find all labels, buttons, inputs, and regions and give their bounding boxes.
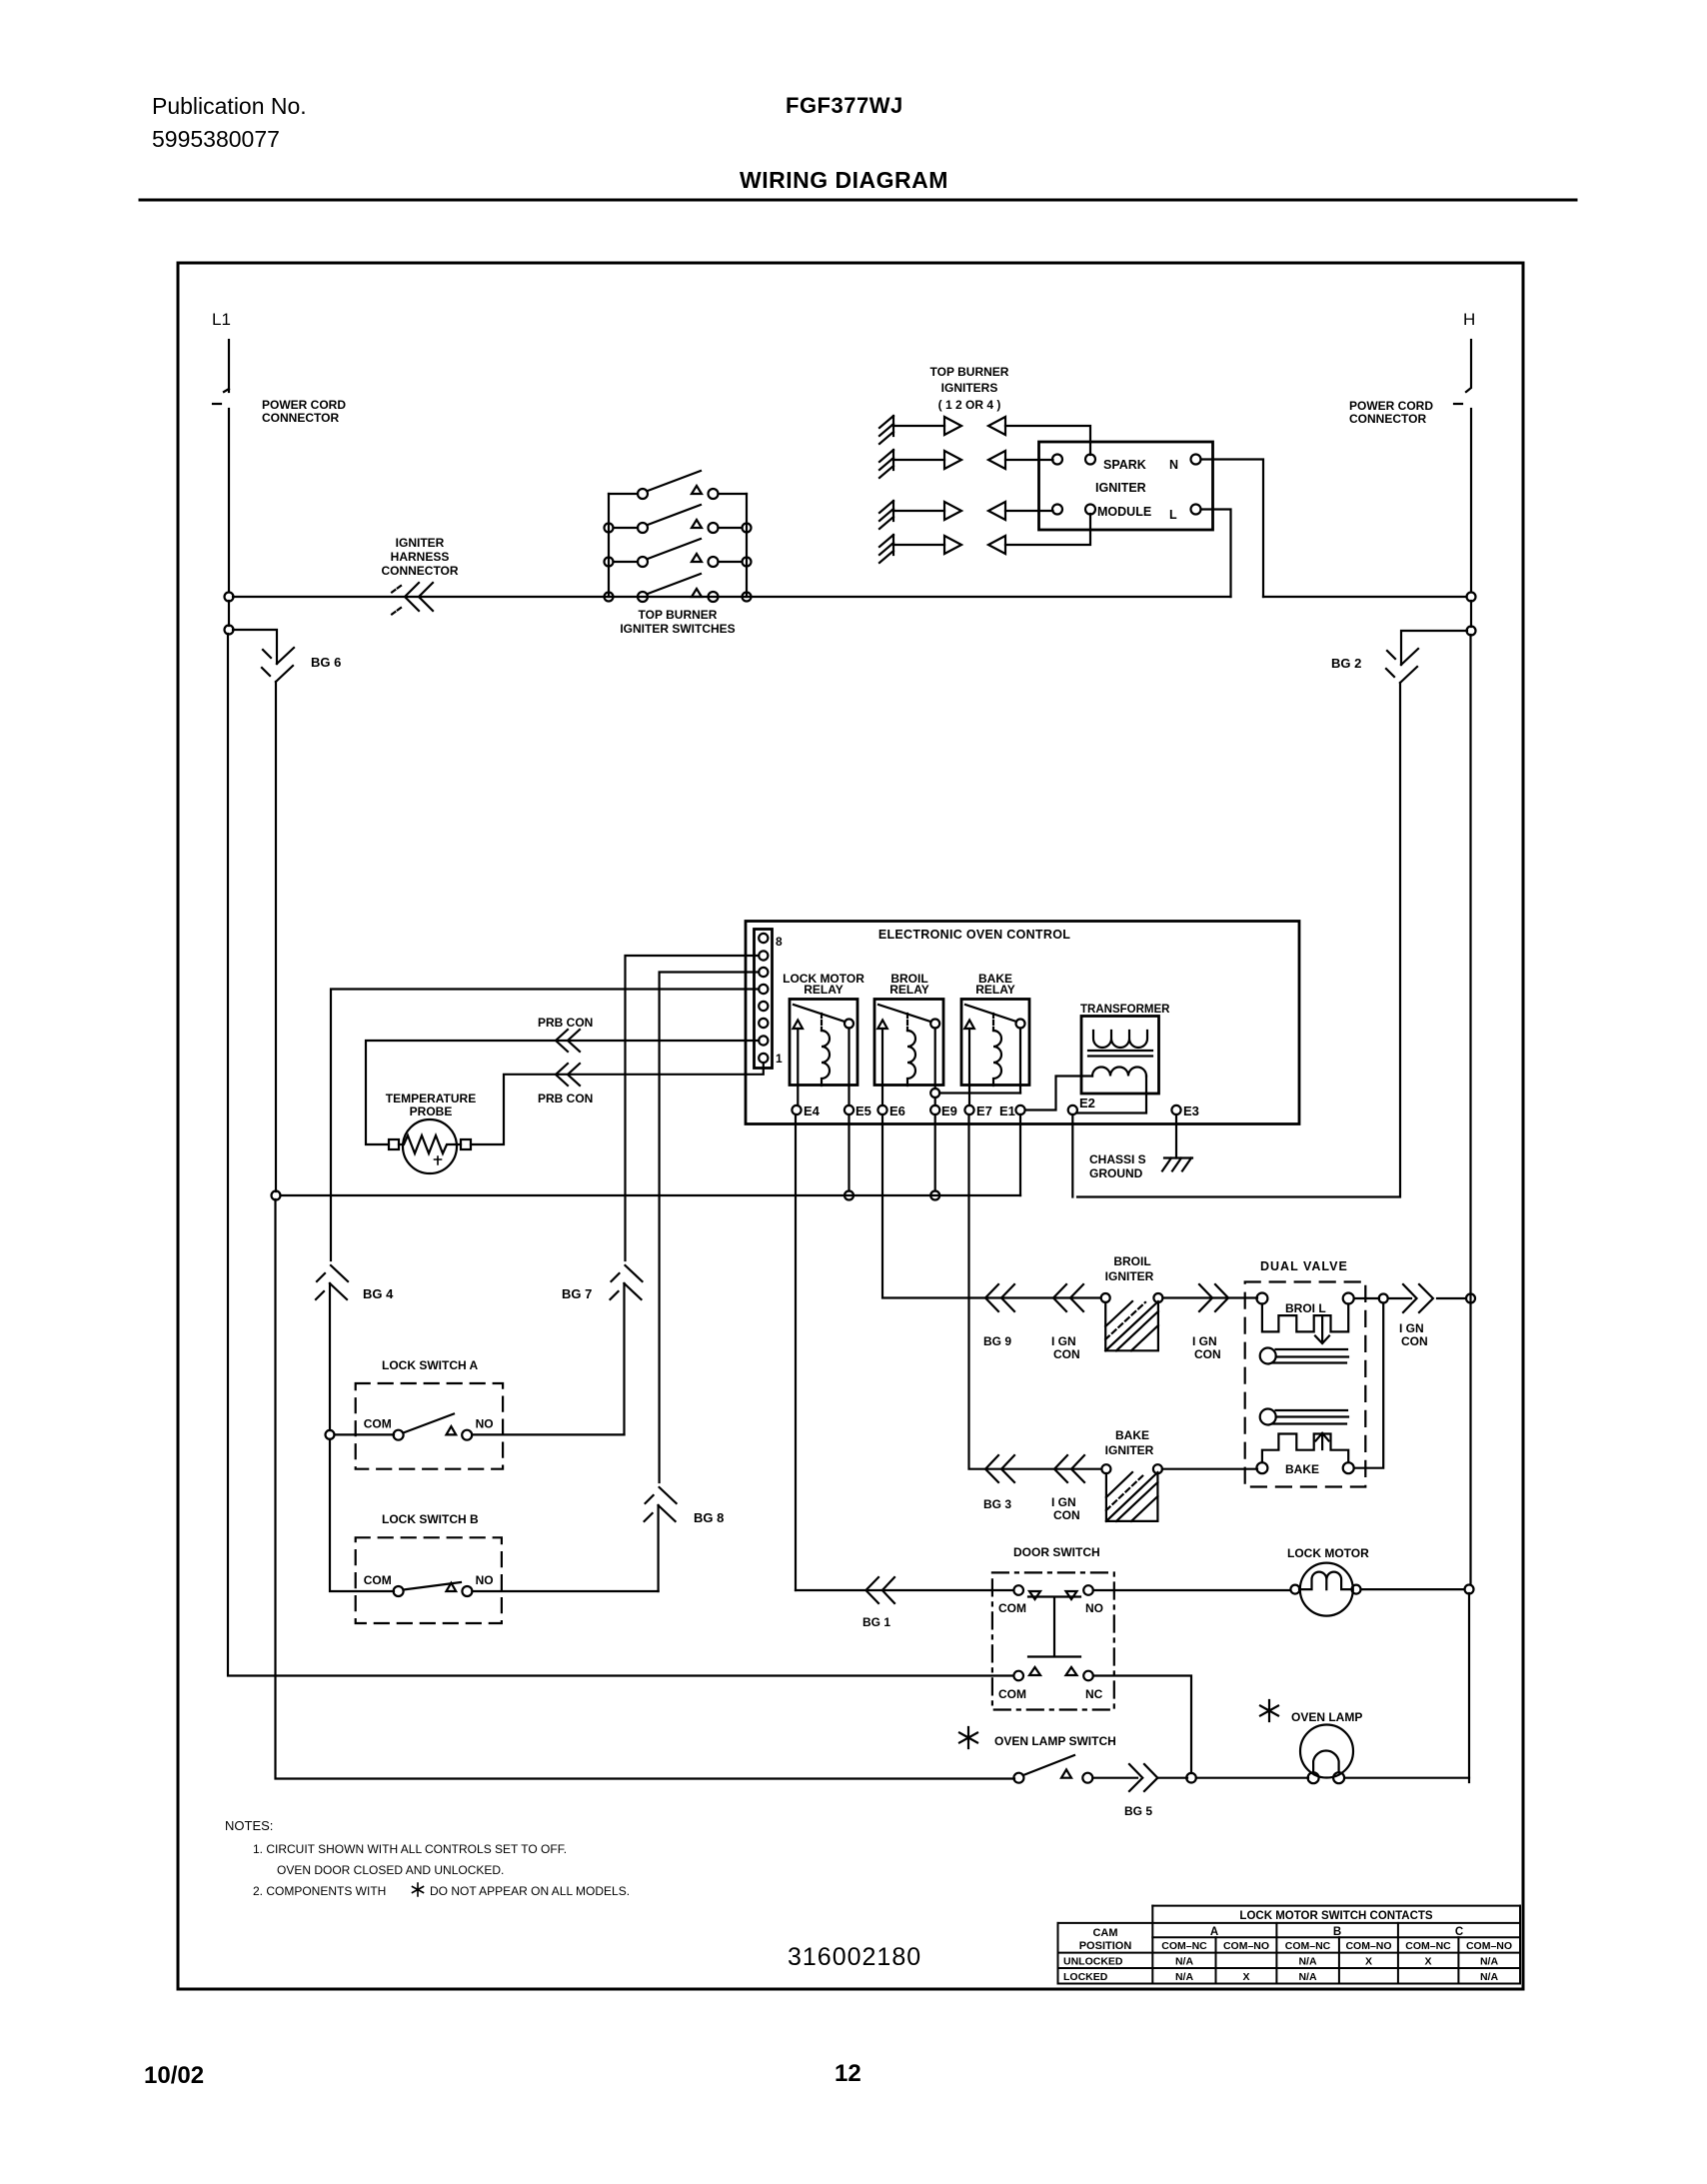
wire: E1 drop to bus end — [1019, 1114, 1021, 1195]
svg-text:8: 8 — [776, 935, 783, 949]
svg-text:CONNECTOR: CONNECTOR — [262, 411, 339, 425]
node: L1 bus junction — [225, 593, 234, 602]
lock motor winding m — [1299, 1572, 1352, 1590]
svg-text:TOP BURNER: TOP BURNER — [930, 365, 1009, 379]
lock motor body circle — [1300, 1563, 1353, 1616]
svg-text:POWER CORD: POWER CORD — [262, 398, 346, 412]
bake relay contact circle — [1016, 1020, 1025, 1029]
node: switch row3 right — [743, 558, 752, 567]
connector IGN CON right-rail chevrons — [1403, 1284, 1433, 1312]
terminal E4 — [792, 1105, 801, 1114]
igniter gap arrow right row 4 — [944, 536, 961, 554]
node: H bus junction — [1467, 593, 1476, 602]
wire: BG6 rail lower — [276, 1199, 1015, 1779]
switch row 3 blade — [648, 539, 701, 559]
switch row 4 contact circle — [709, 592, 719, 602]
terminal E5 — [845, 1105, 853, 1114]
broil relay armature wire to E6 — [881, 1029, 883, 1105]
bake relay box — [961, 1000, 1029, 1086]
svg-text:LOCK SWITCH B: LOCK SWITCH B — [382, 1512, 479, 1526]
module pin circle bottom-left a — [1052, 505, 1062, 515]
wire: bus segment right (N drop to H node) — [1263, 596, 1467, 598]
temperature probe body circle — [403, 1119, 457, 1173]
connector IGN CON bake chevrons — [1054, 1455, 1084, 1482]
svg-text:COM–NO: COM–NO — [1466, 1940, 1512, 1952]
bake relay armature wire to E7 — [968, 1029, 970, 1105]
node: E9/bake contact junction — [930, 1089, 939, 1097]
svg-text:BG 3: BG 3 — [983, 1497, 1011, 1511]
wire: pin1 to temperature probe right (lower PRB CON run) — [471, 1063, 764, 1144]
wire: E4 drop to door switch line — [795, 1114, 797, 1590]
door switch top left contact triangle — [1029, 1591, 1040, 1599]
wire: E6 drop then broil igniter line — [882, 1114, 1100, 1298]
svg-text:OVEN DOOR CLOSED AND UNLOC: OVEN DOOR CLOSED AND UNLOCKED. — [277, 1863, 504, 1877]
bake burner tube lines — [1272, 1410, 1348, 1424]
wire: node to right-rail chevron — [1388, 1297, 1466, 1299]
temperature probe t mark — [435, 1156, 442, 1164]
wire: L to left bus — [1201, 510, 1231, 598]
lock motor relay blade — [794, 1005, 845, 1022]
switch row 4 blade — [648, 574, 701, 594]
igniter gap arrow left row 1 — [988, 417, 1005, 435]
switch row 4 pole circle — [638, 592, 648, 602]
svg-text:DUAL VALVE: DUAL VALVE — [1260, 1259, 1348, 1273]
svg-text:C: C — [1455, 1926, 1463, 1938]
igniter gap arrow right row 1 — [944, 417, 961, 435]
node: bus junction on BG6 rail — [272, 1191, 281, 1200]
wire row4 to module — [1005, 514, 1090, 545]
switch row 3 contact wire — [719, 561, 743, 563]
svg-text:I GN: I GN — [1051, 1334, 1076, 1348]
broil relay blade — [878, 1005, 930, 1022]
strip pin 7 — [759, 951, 768, 960]
wire: H rail between junctions — [1470, 601, 1472, 627]
connector PRB CON lower chevrons — [556, 1064, 580, 1086]
strip pin 1 — [759, 1054, 768, 1063]
module pin circle L — [1191, 505, 1201, 515]
svg-text:LOCK MOTOR: LOCK MOTOR — [1287, 1546, 1369, 1560]
wire: lock switch B no to BG8 drop — [472, 1590, 658, 1592]
svg-text:IGNITER: IGNITER — [1105, 1269, 1154, 1283]
svg-text:N/A: N/A — [1175, 1971, 1194, 1983]
lock switch A no circle — [462, 1430, 472, 1440]
lock switch B dashed box — [356, 1537, 502, 1623]
lock switch B no circle — [462, 1586, 472, 1596]
wire: L1 lead lower to bus — [228, 409, 230, 592]
svg-text:BG 7: BG 7 — [562, 1286, 592, 1301]
door switch bottom nc circle — [1083, 1671, 1093, 1681]
svg-text:PROBE: PROBE — [410, 1104, 453, 1118]
wire: main bus from L1 to spark module L drop — [233, 596, 1231, 598]
door switch top com circle — [1013, 1585, 1023, 1595]
switch row 1 contact triangle — [692, 486, 702, 494]
connector BG 8 chevrons — [645, 1487, 677, 1521]
wire: pin3 to BG8 — [660, 973, 760, 1483]
svg-text:E3: E3 — [1183, 1103, 1199, 1118]
wire: door no to lock motor — [1093, 1589, 1290, 1591]
oven lamp switch blade — [1023, 1755, 1074, 1775]
terminal E9 — [930, 1105, 939, 1114]
lock motor relay contact wire to E5 — [848, 1029, 850, 1106]
dual valve bake-left terminal — [1256, 1462, 1267, 1473]
wire: pin4 to lock switches (BG4 run) — [331, 990, 759, 1261]
wire row 3 — [893, 510, 944, 512]
node: switch row4 left on bus — [605, 593, 614, 602]
svg-text:CON: CON — [1401, 1334, 1428, 1348]
top burner igniter switches: right rail — [746, 494, 748, 597]
connector BG 3 chevrons — [985, 1455, 1014, 1482]
module pin circle N — [1191, 455, 1201, 465]
lock switch A blade — [404, 1414, 455, 1433]
svg-text:IGNITER: IGNITER — [1105, 1443, 1154, 1457]
svg-text:FGF377WJ: FGF377WJ — [786, 93, 903, 118]
connector PRB CON upper chevrons — [556, 1030, 580, 1052]
bake relay coil dashed link — [992, 1014, 994, 1031]
svg-text:2. COMPONENTS WITH: 2. COMPONENTS WITH — [253, 1884, 386, 1898]
svg-text:LOCK SWITCH A: LOCK SWITCH A — [382, 1358, 479, 1372]
strip pin 8 — [759, 934, 768, 943]
broil relay contact wire to E9 — [934, 1029, 936, 1090]
label IGN CON broil-left — [1051, 1334, 1080, 1361]
lock motor relay NO triangle — [794, 1021, 804, 1030]
wire: BG4 to lock switch A com — [329, 1283, 331, 1430]
node: lock motor rail junction — [1465, 1585, 1474, 1594]
transformer core lines — [1088, 1051, 1152, 1057]
igniter gap arrow right row 2 — [944, 451, 961, 469]
svg-text:TEMPERATURE: TEMPERATURE — [386, 1092, 476, 1105]
dual valve broil-right terminal — [1343, 1293, 1354, 1304]
broil relay label — [889, 972, 929, 997]
svg-text:L: L — [1169, 508, 1177, 522]
wire: E2 drop to right bus — [1071, 1114, 1073, 1197]
svg-text:BG 6: BG 6 — [311, 655, 341, 670]
oven lamp bulb circle — [1300, 1725, 1353, 1778]
switch row 2 blade — [648, 505, 701, 525]
connector BG 9 chevrons — [985, 1284, 1014, 1311]
label SPARK IGNITER MODULE — [1095, 458, 1151, 519]
svg-text:LOCKED: LOCKED — [1063, 1971, 1108, 1983]
node: switch row2 right — [743, 524, 752, 533]
door switch top no circle — [1083, 1585, 1093, 1595]
temperature probe resistor zigzag — [399, 1135, 461, 1153]
svg-text:316002180: 316002180 — [788, 1943, 921, 1971]
dual valve bake-right terminal — [1343, 1462, 1354, 1473]
label TEMPERATURE PROBE — [386, 1092, 476, 1118]
label TOP BURNER IGNITER SWITCHES — [620, 608, 735, 636]
svg-text:POWER CORD: POWER CORD — [1349, 399, 1433, 413]
bake relay blade — [965, 1005, 1016, 1022]
svg-text:( 1 2 OR 4 ): ( 1 2 OR 4 ) — [938, 398, 1001, 412]
svg-text:SPARK: SPARK — [1103, 458, 1146, 472]
wire row3 to module — [1005, 510, 1053, 512]
power cord connector L1 (break) — [213, 389, 229, 404]
node: switch row2 left — [605, 524, 614, 533]
terminal E1 — [1015, 1105, 1024, 1114]
table row UNLOCKED — [1063, 1956, 1498, 1968]
svg-text:E9: E9 — [941, 1103, 957, 1118]
svg-text:BG 5: BG 5 — [1124, 1804, 1152, 1818]
wire row1 to module — [1005, 426, 1090, 455]
lock switch A com circle — [394, 1430, 404, 1440]
svg-text:DOOR SWITCH: DOOR SWITCH — [1013, 1545, 1100, 1559]
svg-text:IGNITER: IGNITER — [396, 536, 445, 550]
connector BG 2 branch wire — [1401, 631, 1467, 665]
svg-text:IGNITERS: IGNITERS — [941, 381, 998, 395]
switch row 2 pole wire — [614, 527, 639, 529]
svg-text:5995380077: 5995380077 — [152, 126, 280, 152]
wire: E4 line to door com through BG1 — [796, 1589, 1013, 1591]
svg-text:COM: COM — [364, 1573, 392, 1587]
broil relay NO triangle — [877, 1021, 887, 1030]
bake relay contact wire down — [1019, 1029, 1021, 1093]
bake relay NO triangle — [964, 1021, 974, 1030]
dual valve broil plunger arrow — [1315, 1317, 1329, 1343]
svg-text:12: 12 — [835, 2060, 861, 2087]
lock motor relay label — [783, 972, 864, 997]
temperature probe left terminal — [389, 1139, 399, 1149]
lock switch A contact triangle — [447, 1426, 457, 1434]
module pin circle top-left a — [1052, 455, 1062, 465]
switch row 3 contact triangle — [692, 554, 702, 562]
oven lamp switch pole circle — [1013, 1773, 1023, 1783]
label IGN CON broil-right — [1192, 1334, 1221, 1361]
lock motor relay coil — [822, 1031, 830, 1086]
EOC connector strip — [755, 930, 773, 1069]
wire: broil igniter to dual valve — [1162, 1296, 1257, 1298]
oven lamp filament loop — [1313, 1751, 1339, 1773]
svg-text:CONNECTOR: CONNECTOR — [381, 564, 458, 578]
svg-text:1: 1 — [776, 1052, 783, 1066]
svg-text:COM: COM — [998, 1601, 1026, 1615]
svg-text:HARNESS: HARNESS — [391, 550, 450, 564]
temperature probe right terminal — [461, 1139, 471, 1149]
wire: node to oven lamp — [1196, 1777, 1308, 1779]
main border frame — [178, 263, 1523, 1989]
table CAM POSITION — [1079, 1927, 1132, 1952]
dual valve bake plunger arrow — [1316, 1433, 1329, 1449]
broil igniter left circle — [1101, 1293, 1110, 1302]
svg-text:N/A: N/A — [1298, 1971, 1317, 1983]
svg-text:TRANSFORMER: TRANSFORMER — [1080, 1004, 1170, 1016]
switch row 1 pole wire — [609, 493, 638, 495]
table subheader row — [1161, 1940, 1512, 1952]
wire: bake-right terminal riser to node — [1354, 1303, 1384, 1468]
svg-text:L1: L1 — [212, 310, 231, 329]
svg-text:X: X — [1365, 1956, 1372, 1968]
switch row 3 contact circle — [709, 557, 719, 567]
connector BG 6 branch wire — [233, 630, 277, 664]
broil relay contact circle — [930, 1020, 939, 1029]
wire: E5 drop to bus node — [848, 1114, 850, 1191]
svg-text:I GN: I GN — [1051, 1495, 1076, 1509]
wire: H rail lower segment — [1468, 1593, 1470, 1778]
svg-text:BROI L: BROI L — [1285, 1301, 1326, 1315]
svg-text:DO NOT APPEAR ON ALL MODE: DO NOT APPEAR ON ALL MODELS. — [430, 1884, 630, 1898]
svg-text:CAM: CAM — [1092, 1927, 1117, 1939]
label POWER CORD CONNECTOR right — [1349, 399, 1433, 426]
connector BG 6 chevrons — [262, 648, 294, 682]
svg-text:N/A: N/A — [1298, 1956, 1317, 1968]
oven lamp right terminal — [1333, 1772, 1344, 1783]
wire: BG7 to lock switch A no — [623, 1283, 625, 1434]
wire: lock motor to H rail — [1361, 1588, 1465, 1590]
broil relay box — [874, 1000, 943, 1086]
svg-text:CON: CON — [1053, 1508, 1080, 1522]
igniter gap arrow left row 2 — [988, 451, 1005, 469]
connector BG 2 chevrons — [1386, 649, 1418, 683]
notes asterisk — [413, 1883, 424, 1896]
label POWER CORD CONNECTOR left — [262, 398, 346, 425]
connector BG 7 chevrons — [611, 1265, 643, 1299]
svg-text:1. CIRCUIT SHOWN WITH ALL: 1. CIRCUIT SHOWN WITH ALL CONTROLS SET T… — [253, 1842, 567, 1856]
door switch top right contact triangle — [1066, 1591, 1077, 1599]
svg-text:COM–NC: COM–NC — [1161, 1940, 1207, 1952]
wire: door nc to lamp line drop — [1093, 1676, 1191, 1774]
terminal E6 — [877, 1105, 886, 1114]
svg-text:IGNITER SWITCHES: IGNITER SWITCHES — [620, 622, 735, 636]
svg-text:BAKE: BAKE — [1115, 1428, 1149, 1442]
igniter electrode row 2 — [879, 450, 893, 478]
label IGNITER HARNESS CONNECTOR — [381, 536, 458, 578]
wire: center bus — [281, 1194, 1021, 1196]
svg-text:GROUND: GROUND — [1089, 1166, 1143, 1180]
igniter electrode row 4 — [879, 535, 893, 563]
wire row 2 — [893, 459, 944, 461]
svg-text:COM–NO: COM–NO — [1223, 1940, 1269, 1952]
svg-text:E2: E2 — [1079, 1095, 1095, 1110]
switch row 2 contact circle — [709, 523, 719, 533]
svg-text:RELAY: RELAY — [804, 983, 844, 997]
oven lamp left terminal — [1308, 1772, 1319, 1783]
igniter electrode row 1 — [879, 416, 893, 444]
wire: lock A com node down to lock B com — [330, 1439, 394, 1591]
dual valve dashed box — [1245, 1282, 1366, 1487]
wire: bake contact to E9 junction — [939, 1092, 1020, 1093]
svg-text:NO: NO — [1085, 1601, 1103, 1615]
svg-text:COM–NC: COM–NC — [1285, 1940, 1331, 1952]
terminal E7 — [964, 1105, 973, 1114]
bake igniter right circle — [1153, 1464, 1162, 1473]
broil relay coil dashed link — [906, 1014, 908, 1031]
wire: bake igniter to dual valve — [1162, 1468, 1257, 1470]
strip pin 6 — [759, 968, 768, 977]
lock motor relay armature wire to E4 — [797, 1029, 799, 1105]
wire: E1 to transformer primary-left — [1025, 1077, 1092, 1110]
igniter gap arrow left row 3 — [988, 502, 1005, 520]
wire: BG6 rail down to oven lamp switch line — [275, 682, 277, 1191]
connector BG 5 chevrons — [1129, 1764, 1157, 1791]
svg-text:E5: E5 — [855, 1103, 871, 1118]
svg-text:X: X — [1424, 1956, 1431, 1968]
bake relay coil — [993, 1031, 1001, 1086]
strip pin 2 — [759, 1036, 768, 1045]
dual valve broil-left terminal — [1256, 1293, 1267, 1304]
title underline — [140, 199, 1576, 202]
dual valve bake solenoid crenellation — [1262, 1434, 1348, 1463]
switch row 1 pole circle — [638, 489, 648, 499]
svg-text:COM: COM — [998, 1687, 1026, 1701]
svg-text:B: B — [1333, 1926, 1341, 1938]
door switch bottom right contact triangle — [1066, 1667, 1077, 1675]
wire: BG5 to node — [1157, 1777, 1187, 1779]
connector: igniter harness connector chevrons — [405, 583, 433, 611]
node: switch row4 right on bus — [743, 593, 752, 602]
svg-text:ELECTRONIC OVEN CONTROL: ELECTRONIC OVEN CONTROL — [878, 928, 1070, 942]
transformer secondary winding — [1092, 1068, 1146, 1077]
lock motor relay contact circle — [845, 1020, 853, 1029]
svg-text:UNLOCKED: UNLOCKED — [1063, 1956, 1123, 1968]
electronic oven control box — [746, 922, 1299, 1124]
bake igniter left circle — [1101, 1464, 1110, 1473]
node: E5 on bus — [845, 1191, 853, 1200]
asterisk by oven lamp switch — [959, 1727, 977, 1748]
connector BG 4 chevrons — [316, 1265, 348, 1299]
svg-text:X: X — [1242, 1971, 1249, 1983]
svg-text:RELAY: RELAY — [975, 983, 1015, 997]
wire: oven lamp to H rail corner — [1344, 1778, 1469, 1782]
svg-text:N: N — [1169, 458, 1178, 472]
bake burner tube — [1260, 1409, 1276, 1425]
wire: lock switch A no to BG7 drop — [472, 1433, 624, 1435]
igniter electrode row 3 — [879, 501, 893, 529]
wire row2 to module — [1005, 459, 1053, 461]
terminal E3 — [1171, 1105, 1180, 1114]
wire: H rail down right side to lamp line — [1469, 635, 1471, 1584]
terminal E2 — [1068, 1105, 1077, 1114]
wire row 1 — [893, 425, 944, 427]
svg-text:COM: COM — [364, 1417, 392, 1431]
wire row 4 — [893, 544, 944, 546]
label BROIL IGNITER — [1105, 1254, 1154, 1283]
switch row 2 contact triangle — [692, 520, 702, 528]
svg-text:E4: E4 — [804, 1103, 821, 1118]
lock motor right terminal — [1352, 1585, 1361, 1594]
node: E9 on bus — [930, 1191, 939, 1200]
label IGN CON right-rail — [1399, 1321, 1428, 1348]
svg-text:H: H — [1463, 310, 1475, 329]
strip pin 4 — [759, 1002, 768, 1011]
lock motor relay box — [790, 1000, 857, 1086]
lock switch B contact triangle — [447, 1583, 457, 1591]
wire: pin7 to temperature probe left (upper PRB CON run) — [366, 1041, 759, 1144]
broil igniter hatch lines — [1105, 1301, 1158, 1350]
svg-text:BG 1: BG 1 — [862, 1615, 890, 1629]
svg-text:CON: CON — [1053, 1347, 1080, 1361]
wire: L1 lead upper — [228, 340, 230, 392]
lock motor left terminal — [1290, 1585, 1299, 1594]
wire: E9 drop to bus node — [934, 1114, 936, 1191]
spark igniter module box — [1039, 442, 1213, 530]
switch row 1 blade — [648, 471, 701, 491]
door switch bottom left contact triangle — [1029, 1667, 1040, 1675]
wire: E9 junction to E9 — [934, 1097, 936, 1105]
wire: BG8 to lock switch B no — [657, 1505, 659, 1591]
svg-text:BG 4: BG 4 — [363, 1286, 394, 1301]
wire: H lead upper — [1454, 340, 1471, 404]
svg-text:LOCK MOTOR SWITCH CONTACTS: LOCK MOTOR SWITCH CONTACTS — [1239, 1910, 1432, 1922]
bake igniter hatch lines — [1106, 1472, 1158, 1521]
connector BG 1 chevrons — [865, 1577, 894, 1603]
lock motor switch contacts table grid — [1058, 1906, 1521, 1984]
wire: lamp switch to BG5 — [1092, 1777, 1137, 1779]
wire: BG2 drop to E2 line — [1077, 683, 1400, 1197]
switch row 1 contact circle — [709, 489, 719, 499]
top burner igniter switches: left rail — [608, 494, 610, 597]
door switch actuator — [1028, 1597, 1080, 1657]
label IGN CON bake — [1051, 1495, 1080, 1522]
svg-text:PRB CON: PRB CON — [538, 1016, 593, 1030]
svg-text:OVEN LAMP: OVEN LAMP — [1291, 1710, 1362, 1724]
